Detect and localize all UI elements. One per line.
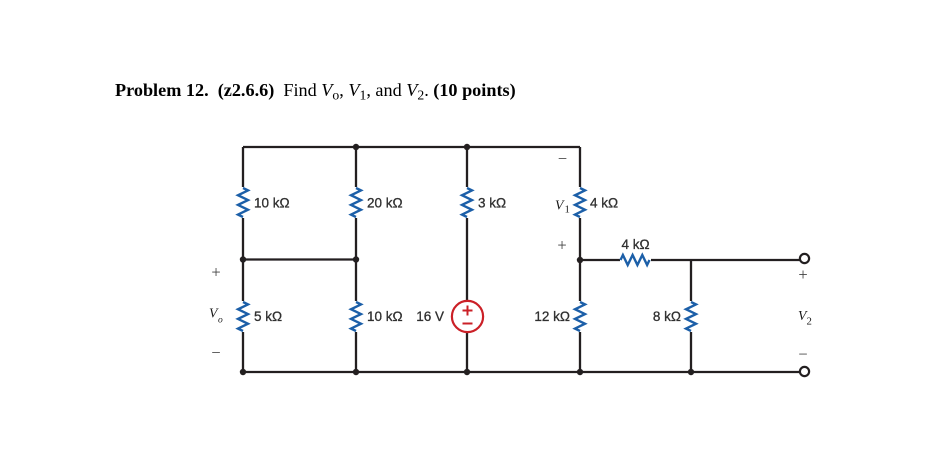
wire top horizontal <box>243 146 580 148</box>
svg-text:4 kΩ: 4 kΩ <box>621 237 649 252</box>
svg-text:Problem 12. (z2.6.6) Find Vo: Problem 12. (z2.6.6) Find Vo, V1, and V2… <box>115 80 516 102</box>
svg-text:o: o <box>218 316 223 326</box>
resistor R5 5 kOhm <box>237 301 249 332</box>
wire middle right horizontal to output terminal <box>580 259 800 261</box>
svg-text:20 kΩ: 20 kΩ <box>367 196 403 211</box>
svg-text:12 kΩ: 12 kΩ <box>534 309 570 324</box>
svg-text:8 kΩ: 8 kΩ <box>653 309 681 324</box>
wire middle left horizontal <box>243 258 356 260</box>
terminal bottom right (- of V2) <box>800 367 809 376</box>
resistor R9 4 kOhm horizontal <box>620 254 651 266</box>
resistor R8 8 kOhm <box>685 301 697 332</box>
svg-text:−: − <box>211 343 220 362</box>
net label V2 <box>798 308 812 328</box>
svg-text:4 kΩ: 4 kΩ <box>590 196 618 211</box>
resistor R1 10 kOhm <box>237 187 249 218</box>
node top of branch 3 <box>464 144 470 150</box>
wire branch 4 vertical (4k/12k column) <box>579 147 581 372</box>
net label Vo <box>209 306 223 326</box>
node bottom of branch 3 <box>464 369 470 375</box>
resistor R4 4 kOhm vertical (V1) <box>574 187 586 218</box>
node top of branch 2 <box>353 144 359 150</box>
node A middle left <box>240 256 246 262</box>
wire branch 3 vertical (3k/16V column) <box>466 147 468 372</box>
svg-text:+: + <box>211 262 220 281</box>
node middle of branch 4 <box>577 257 583 263</box>
svg-text:5 kΩ: 5 kΩ <box>254 309 282 324</box>
voltage source VS 16 V <box>452 301 483 332</box>
svg-text:16 V: 16 V <box>416 309 444 324</box>
wire branch 5 vertical (8k column) <box>690 260 692 372</box>
node middle of branch 2 <box>353 256 359 262</box>
svg-text:−: − <box>558 149 567 168</box>
net label V1 <box>555 197 570 215</box>
node bottom of branch 2 <box>353 369 359 375</box>
resistor R2 20 kOhm <box>350 187 362 218</box>
resistor R7 12 kOhm <box>574 301 586 332</box>
svg-text:+: + <box>557 235 566 254</box>
svg-text:−: − <box>798 345 807 364</box>
svg-text:+: + <box>798 265 807 284</box>
node bottom of branch 5 <box>688 369 694 375</box>
node bottom of branch 4 <box>577 369 583 375</box>
wire left vertical branch (node A column) <box>242 147 244 372</box>
svg-text:1: 1 <box>565 203 570 215</box>
wire bottom horizontal <box>243 371 800 373</box>
terminal top right (+ of V2) <box>800 254 809 263</box>
resistor R6 10 kOhm bottom <box>350 301 362 332</box>
svg-text:3 kΩ: 3 kΩ <box>478 196 506 211</box>
svg-text:10 kΩ: 10 kΩ <box>367 309 403 324</box>
resistor R3 3 kOhm <box>461 187 473 218</box>
svg-text:V: V <box>555 197 565 212</box>
node bottom left <box>240 369 246 375</box>
svg-text:10 kΩ: 10 kΩ <box>254 196 290 211</box>
svg-text:2: 2 <box>807 316 812 328</box>
wire branch 2 vertical (20k/10k column) <box>355 147 357 372</box>
